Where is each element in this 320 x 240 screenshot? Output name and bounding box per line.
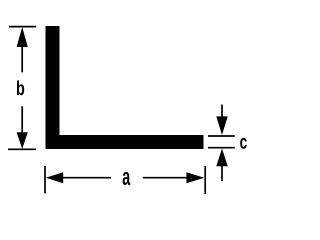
dimension a: left tick bbox=[44, 166, 46, 194]
dimension b: upper wire bbox=[21, 46, 23, 72]
label a bbox=[123, 172, 131, 185]
dimension a: right tick bbox=[204, 166, 206, 194]
dimension b: bottom arrow bbox=[17, 132, 28, 149]
dimension a: right wire bbox=[143, 177, 187, 179]
dimension c: upper wire bbox=[221, 105, 223, 118]
dimension b: bottom tick bbox=[8, 148, 36, 150]
dimension c: bottom tick bbox=[208, 147, 235, 149]
dimension a: left arrow bbox=[46, 172, 63, 183]
label c bbox=[240, 138, 247, 149]
dimension b: top arrow bbox=[17, 27, 28, 47]
dimension b: top tick bbox=[9, 26, 36, 28]
L-profile cross-section bbox=[46, 26, 204, 149]
dimension c: top tick bbox=[208, 135, 235, 137]
dimension a: left wire bbox=[62, 177, 111, 179]
dimension c: lower arrow bbox=[216, 149, 227, 167]
dimension b: lower wire bbox=[21, 106, 23, 133]
label b bbox=[17, 81, 24, 96]
dimension a: right arrow bbox=[186, 172, 204, 183]
dimension c: lower wire bbox=[221, 165, 223, 181]
dimension c: upper arrow bbox=[216, 116, 227, 135]
